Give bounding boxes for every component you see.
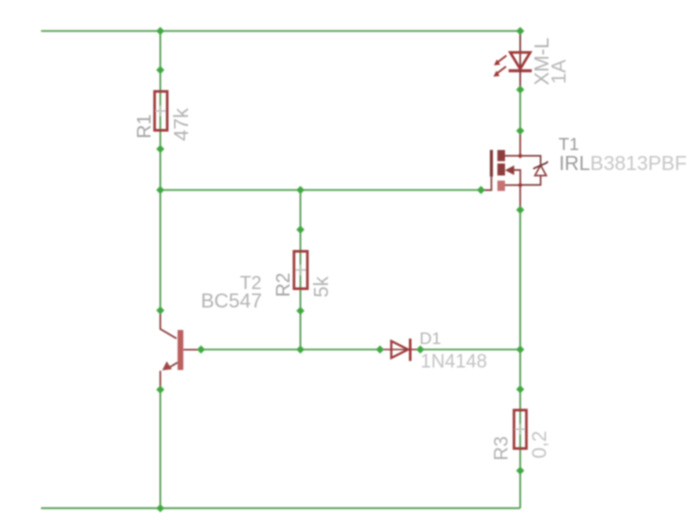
junction R3 pin bottom [516, 466, 524, 474]
wire left column to T2 collector [159, 190, 161, 310]
wire bottom rail GND [41, 507, 520, 509]
diode D1 1N4148 [380, 339, 420, 361]
wire base line T2 to D1 [201, 349, 380, 351]
svg-text:R2: R2 [274, 273, 295, 297]
transistor T2 BC547 NPN [160, 310, 201, 389]
svg-text:R3: R3 [492, 436, 513, 460]
resistor R1 [155, 91, 168, 130]
wire LED cathode to T1 drain [519, 90, 521, 131]
junction T1 drain pin [516, 127, 524, 135]
junction T1 source internal [518, 182, 523, 187]
wire left column R1 branch [159, 31, 161, 190]
junction T1 source pin [516, 206, 524, 214]
resistor R3 [514, 410, 526, 448]
resistor R2 [294, 251, 307, 288]
wire R2 vertical [299, 190, 301, 350]
svg-text:BC547: BC547 [201, 291, 262, 313]
junction R3 pin top [516, 385, 524, 393]
label R1 value 47k [170, 107, 193, 141]
label R1 name [135, 114, 156, 138]
junction top rail at LED anode [516, 27, 524, 35]
svg-text:D1: D1 [420, 329, 442, 348]
label R3 name [492, 436, 513, 460]
wire top rail V+ [41, 30, 520, 32]
svg-text:47k: 47k [170, 107, 193, 141]
body diode of T1 [520, 156, 540, 165]
svg-text:5k: 5k [311, 275, 333, 297]
label T1 value IRLB3813PBF [559, 153, 687, 175]
junction R2 pin bottom [296, 307, 304, 315]
junction right column at base line [516, 345, 524, 353]
junction top rail at R1 [156, 27, 164, 35]
wire T2 emitter to bottom rail [159, 390, 161, 509]
junction gate line at R2 [296, 186, 304, 194]
wire right column source to bottom [519, 210, 521, 508]
junction T2 emitter pin [156, 385, 164, 393]
LED D2 XM-L [493, 31, 531, 90]
junction LED cathode pin [516, 85, 524, 93]
junction R2 pin top [296, 225, 304, 233]
wire gate line [160, 189, 481, 191]
label LED value XM-L [532, 38, 554, 86]
label D1 value 1N4148 [421, 352, 488, 373]
svg-text:1N4148: 1N4148 [421, 352, 488, 373]
junction gate node at left column [156, 186, 164, 194]
label LED value 1A [549, 59, 571, 84]
svg-text:R1: R1 [135, 114, 156, 138]
junction T1 drain internal [518, 153, 523, 158]
junction bottom rail at T2 [156, 504, 164, 512]
svg-text:T1: T1 [559, 134, 579, 154]
junction T2 collector pin [156, 306, 164, 314]
junction T1 gate pin [477, 186, 485, 194]
svg-text:1A: 1A [549, 59, 571, 84]
junction R1 pin top [156, 66, 164, 74]
label T2 value BC547 [201, 291, 262, 313]
label T1 name [559, 134, 579, 154]
wire D1 cathode to right column [420, 349, 520, 351]
transistor T1 IRLB3813PBF n-channel MOSFET [481, 131, 548, 210]
label R3 value 0,2 [529, 431, 551, 459]
svg-text:IRLB3813PBF: IRLB3813PBF [559, 153, 687, 175]
label T2 name [240, 272, 262, 293]
label R2 name [274, 273, 295, 297]
label R2 value 5k [311, 275, 333, 297]
label D1 name [420, 329, 442, 348]
junction D1 anode pin [376, 345, 384, 353]
junction T2 base pin [197, 345, 205, 353]
junction D1 cathode pin [416, 345, 424, 353]
junction R1 pin bottom [156, 145, 164, 153]
svg-text:0,2: 0,2 [529, 431, 551, 459]
junction base line at R2 [296, 345, 304, 353]
